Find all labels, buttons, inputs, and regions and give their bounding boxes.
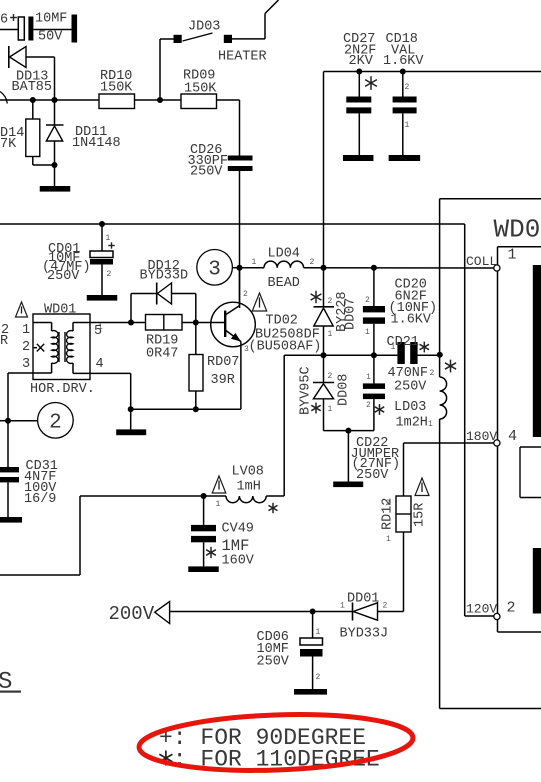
svg-text:BYV95C: BYV95C <box>299 366 314 415</box>
svg-text:1: 1 <box>365 328 370 337</box>
svg-text:2: 2 <box>243 290 248 299</box>
svg-text:250V: 250V <box>394 380 427 395</box>
svg-text:LD04: LD04 <box>268 247 300 262</box>
svg-text:5: 5 <box>94 324 102 339</box>
svg-text:1: 1 <box>252 258 257 267</box>
svg-text:2: 2 <box>22 340 30 355</box>
svg-text:250V: 250V <box>190 165 223 180</box>
svg-text:16/9: 16/9 <box>24 492 56 507</box>
svg-text:250V: 250V <box>257 655 290 670</box>
svg-text:2: 2 <box>365 296 370 305</box>
svg-text:1: 1 <box>508 247 517 264</box>
svg-text:2: 2 <box>383 602 388 611</box>
svg-text:CV49: CV49 <box>222 522 254 537</box>
svg-text:COLL: COLL <box>466 254 497 269</box>
svg-text:WD06: WD06 <box>494 215 541 245</box>
svg-text:250V: 250V <box>47 269 80 284</box>
svg-text:1: 1 <box>328 405 333 414</box>
svg-text:2: 2 <box>328 297 333 306</box>
svg-text:1: 1 <box>428 420 433 429</box>
svg-text:10MF: 10MF <box>35 12 67 27</box>
svg-text:2: 2 <box>107 270 112 279</box>
svg-text:250V: 250V <box>356 468 389 483</box>
svg-text:BEAD: BEAD <box>268 276 300 291</box>
svg-text:1: 1 <box>216 500 221 509</box>
svg-text:1: 1 <box>22 323 30 338</box>
svg-text:LV08: LV08 <box>232 465 264 480</box>
svg-text:1: 1 <box>106 234 111 243</box>
svg-text:39R: 39R <box>211 373 235 388</box>
svg-text:HEATER: HEATER <box>218 50 267 65</box>
svg-text:2: 2 <box>310 258 315 267</box>
svg-text:160V: 160V <box>222 554 255 569</box>
svg-text:R: R <box>0 334 8 349</box>
svg-text:BYD33D: BYD33D <box>140 269 189 284</box>
svg-text:2: 2 <box>507 600 516 617</box>
svg-text:1.6KV: 1.6KV <box>391 313 432 328</box>
svg-text:120V: 120V <box>466 602 497 617</box>
svg-text:50V: 50V <box>38 30 63 45</box>
svg-text:TD02: TD02 <box>266 314 298 329</box>
svg-text:15R: 15R <box>413 503 428 527</box>
svg-text:LD03: LD03 <box>394 400 426 415</box>
svg-text:2KV: 2KV <box>349 54 374 69</box>
svg-text:4: 4 <box>508 428 517 445</box>
svg-text:1: 1 <box>316 628 321 637</box>
svg-text:DD08: DD08 <box>337 374 352 406</box>
svg-text:3: 3 <box>208 259 221 282</box>
svg-text:6: 6 <box>0 13 8 28</box>
svg-text:RD07: RD07 <box>207 355 239 370</box>
svg-text:WD01: WD01 <box>44 303 76 318</box>
svg-text:2: 2 <box>316 673 321 682</box>
svg-text:2: 2 <box>49 412 62 435</box>
svg-text:(BU508AF): (BU508AF) <box>249 340 322 355</box>
svg-text:1: 1 <box>405 121 410 130</box>
svg-text:BYD33J: BYD33J <box>340 627 389 642</box>
svg-text:3: 3 <box>244 345 249 354</box>
svg-text:4: 4 <box>96 357 104 372</box>
svg-text:BAT85: BAT85 <box>12 80 53 95</box>
svg-text:DD01: DD01 <box>347 592 379 607</box>
svg-text:1: 1 <box>366 373 371 382</box>
svg-text:HOR.DRV.: HOR.DRV. <box>30 382 95 397</box>
svg-text:2: 2 <box>328 372 333 381</box>
svg-text:1: 1 <box>340 602 345 611</box>
svg-text:1: 1 <box>391 343 396 352</box>
svg-text:2: 2 <box>366 401 371 410</box>
svg-text:JD03: JD03 <box>188 20 220 35</box>
svg-text:3: 3 <box>22 357 30 372</box>
svg-text:2: 2 <box>430 369 435 378</box>
svg-text:150K: 150K <box>184 82 217 97</box>
svg-text:200V: 200V <box>109 603 155 625</box>
svg-text:150K: 150K <box>100 81 133 96</box>
svg-text:1mH: 1mH <box>237 480 261 495</box>
svg-text:DD07: DD07 <box>344 298 359 330</box>
svg-text:180V: 180V <box>466 429 497 444</box>
svg-text:2: 2 <box>386 499 391 508</box>
svg-text:1: 1 <box>386 535 391 544</box>
svg-text:1N4148: 1N4148 <box>72 136 121 151</box>
svg-text:1m2H: 1m2H <box>396 416 428 431</box>
svg-text:1: 1 <box>328 330 333 339</box>
svg-text:1.6KV: 1.6KV <box>383 54 424 69</box>
svg-text:1MF: 1MF <box>222 537 250 555</box>
svg-text:0R47: 0R47 <box>146 347 178 362</box>
svg-text:2: 2 <box>405 83 410 92</box>
svg-text:7K: 7K <box>0 137 17 152</box>
